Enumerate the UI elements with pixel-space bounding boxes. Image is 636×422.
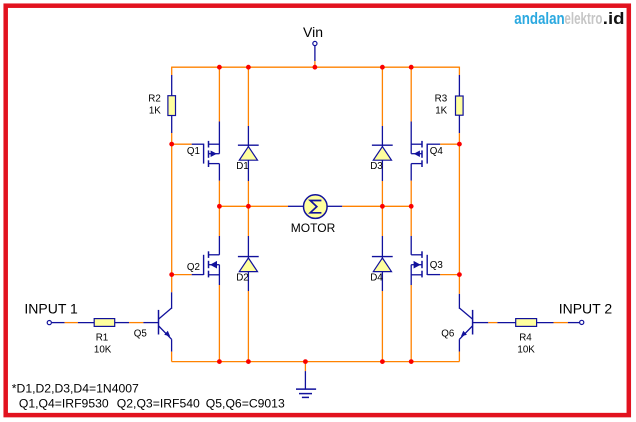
node top bus / D3 cathode — [380, 65, 385, 70]
wire Q3 source lead (bottom) — [410, 265, 412, 362]
svg-text:Q6: Q6 — [441, 328, 455, 339]
annotation parts list — [12, 382, 285, 411]
node R3 / Q4 gate — [457, 142, 462, 147]
diode D3 (1N4007) — [370, 67, 393, 206]
node bottom bus / ground tap — [303, 359, 308, 364]
wire R4 to INPUT2 — [537, 322, 580, 324]
wire Q2 source lead (bottom) — [218, 265, 220, 362]
wire right rail middle (R3 junction down to Q6 collector) — [458, 144, 460, 294]
node mid bus / D3-D4 — [380, 204, 385, 209]
node mid bus / Q3-Q4 — [409, 204, 414, 209]
node top bus / Q4 source — [409, 65, 414, 70]
resistor R1 — [94, 319, 115, 356]
motor M1 — [291, 195, 336, 235]
wire Q2 drain lead (top) — [218, 206, 220, 255]
wire bottom bus — [172, 361, 460, 363]
svg-text:INPUT 2: INPUT 2 — [559, 301, 613, 317]
wire Q1 source lead (top) — [218, 67, 220, 154]
node bottom bus / D4 anode — [380, 359, 385, 364]
diode D2 (1N4007) — [236, 206, 259, 361]
wire right rail top (bus corner to R3) — [458, 67, 460, 96]
terminal Vin — [303, 24, 323, 67]
transistor Q4 (P-MOSFET IRF9530) — [411, 141, 459, 167]
wire R1 to Q5 base — [115, 322, 158, 324]
node top bus / D1 cathode — [246, 65, 251, 70]
node Q3 gate / rail — [457, 272, 462, 277]
svg-text:10K: 10K — [517, 344, 535, 355]
diode D1 (1N4007) — [236, 67, 259, 206]
resistor R3 — [435, 94, 463, 145]
wire Q1 drain lead (bottom) — [218, 164, 220, 207]
node mid bus / Q1-Q2 — [217, 204, 222, 209]
svg-text:.id: .id — [603, 9, 625, 28]
resistor R2 — [148, 94, 175, 145]
svg-text:Q1: Q1 — [187, 146, 200, 157]
svg-text:Q3: Q3 — [430, 260, 444, 271]
transistor Q3 (N-MOSFET IRF540) — [411, 251, 459, 277]
svg-text:*D1,D2,D3,D4=1N4007: *D1,D2,D3,D4=1N4007 — [12, 382, 139, 396]
svg-text:R3: R3 — [435, 94, 448, 105]
wire left rail middle (R2 junction down to Q5 collector) — [171, 144, 173, 292]
node Vin junction — [313, 65, 318, 70]
wire mid bus left — [219, 205, 303, 207]
wire Q4 source lead (top) — [410, 67, 412, 154]
wire Q6 base to R4 — [473, 322, 516, 324]
node Q2 gate / rail — [169, 272, 174, 277]
svg-text:D3: D3 — [370, 161, 383, 172]
svg-text:10K: 10K — [94, 344, 112, 355]
transistor Q6 (C9013 NPN) — [441, 308, 472, 339]
svg-text:Q5: Q5 — [134, 328, 148, 339]
svg-text:Vin: Vin — [303, 24, 323, 40]
node mid bus / D1-D2 — [246, 204, 251, 209]
terminal INPUT 2 — [559, 301, 613, 325]
wire Q5 emitter lead — [171, 339, 173, 361]
diode D4 (1N4007) — [370, 206, 393, 361]
node bottom bus / D2 anode — [246, 359, 251, 364]
svg-text:Q5,Q6=C9013: Q5,Q6=C9013 — [206, 396, 285, 410]
svg-text:elektro: elektro — [564, 9, 602, 28]
logo andalanelektro.id — [514, 9, 624, 28]
svg-text:Q2,Q3=IRF540: Q2,Q3=IRF540 — [117, 396, 200, 410]
svg-text:Q2: Q2 — [187, 262, 200, 273]
svg-text:1K: 1K — [149, 106, 161, 117]
svg-text:R1: R1 — [96, 332, 109, 343]
wire Q5 collector lead — [171, 292, 173, 309]
svg-text:D1: D1 — [236, 161, 249, 172]
terminal INPUT 1 — [24, 301, 78, 325]
wire Q6 collector lead — [458, 294, 460, 309]
svg-text:R2: R2 — [148, 94, 161, 105]
wire Q4 drain lead (bottom) — [410, 164, 412, 207]
transistor Q1 (P-MOSFET IRF9530) — [172, 141, 220, 167]
node R2 / Q1 gate — [169, 142, 174, 147]
svg-text:Q1,Q4=IRF9530: Q1,Q4=IRF9530 — [19, 396, 109, 410]
resistor R4 — [516, 319, 537, 356]
ground — [296, 362, 316, 398]
svg-text:1K: 1K — [435, 106, 447, 117]
svg-text:D2: D2 — [236, 272, 249, 283]
wire INPUT1 to R1 — [52, 322, 95, 324]
node bottom bus / Q3 source — [409, 359, 414, 364]
svg-text:Q4: Q4 — [430, 146, 444, 157]
wire mid bus right — [327, 205, 411, 207]
svg-text:R4: R4 — [519, 332, 532, 343]
node bottom bus / Q2 source — [217, 359, 222, 364]
wire Q3 drain lead (top) — [410, 206, 412, 255]
transistor Q5 (C9013 NPN) — [134, 308, 172, 339]
wire top bus — [172, 66, 460, 68]
svg-text:MOTOR: MOTOR — [291, 221, 336, 235]
wire left rail top (bus corner to R2) — [171, 67, 173, 96]
transistor Q2 (N-MOSFET IRF540) — [172, 251, 220, 277]
node top bus / Q1 source — [217, 65, 222, 70]
wire Q6 emitter lead — [458, 339, 460, 361]
svg-text:D4: D4 — [370, 272, 383, 283]
svg-text:andalan: andalan — [514, 9, 564, 28]
svg-text:INPUT 1: INPUT 1 — [24, 301, 78, 317]
